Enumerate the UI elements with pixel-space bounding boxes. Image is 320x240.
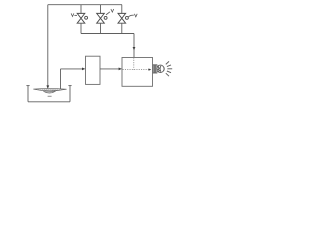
box measuring cell B2 [122,58,153,87]
valve V1 body [77,13,85,23]
valve V1 label leader [74,14,77,16]
light ray middle [167,68,172,70]
dashed gas path horizontal inside cell [123,69,149,71]
dish lower bowl (hatched) [43,91,55,93]
arrowhead into cell B2 [119,68,122,71]
box chamber B1 [86,56,101,84]
wire: lower manifold [81,33,134,35]
tank left wall [27,86,29,102]
valve V1 actuator circle [85,16,88,19]
valve V2 actuator circle [104,16,107,19]
valve V3 body [118,13,126,23]
valve V2 body [97,13,105,23]
light ray down [166,73,169,76]
lamp tip [163,67,166,71]
light ray lower mid [167,71,171,73]
valve V2 stem upper [100,5,102,14]
lamp socket [153,65,157,73]
tank left rim tick [26,85,29,87]
wire: left vertical down to dish [47,5,49,86]
lamp socket hatch 2 [155,65,157,73]
arrowhead dashed path [149,68,152,70]
light ray upper mid [167,65,171,67]
arrowhead into box B1 [82,68,85,71]
wire: dish outlet up [60,69,62,90]
wire: manifold down to cell [133,34,135,58]
lamp filament [158,66,160,72]
valve V3 label V [134,14,137,17]
wire: box B1 to cell B2 [100,68,120,70]
tank right rim tick [68,85,71,87]
valve V2 label V [111,9,114,12]
light ray up [166,61,169,64]
valve V1 label V [71,13,74,16]
valve V3 label leader [128,15,134,17]
lamp filament loop [159,66,162,72]
dish foot mark [48,95,52,97]
wire: top supply line [48,4,122,6]
valve V1 stem upper [80,5,82,14]
tank right wall [69,86,71,102]
valve V3 actuator circle [125,16,128,19]
dish with sample (hatched) [33,89,66,91]
lamp bulb [157,65,164,72]
valve V2 label leader [106,12,110,15]
valve V3 stem upper [121,5,123,14]
valve V2 stem lower [100,23,102,33]
tank bottom [28,101,70,103]
arrowhead down on manifold drop [133,47,136,50]
dashed gas path vertical inside cell [133,58,135,70]
wire: dish outlet to box B1 [61,68,84,70]
valve V3 stem lower [121,23,123,33]
valve V1 stem lower [80,23,82,33]
arrowhead into dish [46,85,49,89]
lamp socket hatch [153,65,155,73]
